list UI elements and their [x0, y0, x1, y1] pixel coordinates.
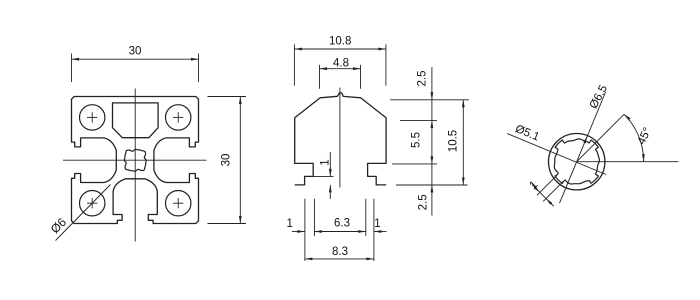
svg-text:8.3: 8.3	[332, 246, 348, 258]
svg-text:30: 30	[221, 154, 233, 167]
horizontal reference ray	[577, 161, 679, 163]
top closed slot cavity	[113, 103, 159, 138]
45 degree ray	[577, 114, 624, 161]
Ø6.5 leader line through center	[560, 92, 606, 203]
inner scalloped circle Ø5.1 with 4 notches	[554, 139, 599, 184]
dimension 4.8	[319, 65, 321, 89]
45° angular dimension arc	[624, 114, 644, 161]
bottom extension lines	[304, 199, 306, 261]
dim 10.5	[462, 100, 464, 185]
extension lines right of middle view	[390, 99, 469, 101]
center square hole (scalloped)	[124, 149, 146, 171]
Ø5.1 leader through center	[507, 134, 606, 175]
dimension 30 (right height)	[208, 96, 247, 98]
dim 8.3	[305, 258, 374, 260]
svg-text:1: 1	[320, 159, 332, 165]
dimension 30 (top width)	[71, 54, 73, 83]
svg-text:5.5: 5.5	[411, 132, 423, 148]
dims 2.5 / 5.5 / 2.5	[431, 67, 433, 216]
dimension 10.8	[293, 44, 295, 85]
svg-text:2.5: 2.5	[416, 71, 428, 87]
svg-text:4.8: 4.8	[333, 58, 349, 70]
svg-text:1: 1	[374, 218, 380, 230]
svg-text:10.8: 10.8	[329, 36, 351, 48]
dimension 1 (slot lip nub height)	[313, 175, 333, 177]
centerlines of left view	[134, 89, 136, 242]
leader line for Ø6	[56, 185, 111, 241]
dim 6.3 with side 1 dims	[292, 231, 305, 233]
corner bore holes Ø6 with crosshairs	[80, 105, 105, 130]
middle view centerline	[339, 88, 341, 188]
svg-text:10.5: 10.5	[448, 130, 460, 152]
svg-text:30: 30	[129, 46, 142, 58]
svg-text:6.3: 6.3	[334, 218, 350, 230]
svg-text:2.5: 2.5	[417, 194, 429, 210]
outer circle Ø6.5	[549, 134, 605, 190]
profile outline (left view 30x30 section)	[72, 97, 199, 224]
dim 1 (notch width, lower-left)	[543, 182, 563, 202]
svg-text:1: 1	[286, 218, 292, 230]
slot detail outline (middle view)	[295, 93, 386, 185]
